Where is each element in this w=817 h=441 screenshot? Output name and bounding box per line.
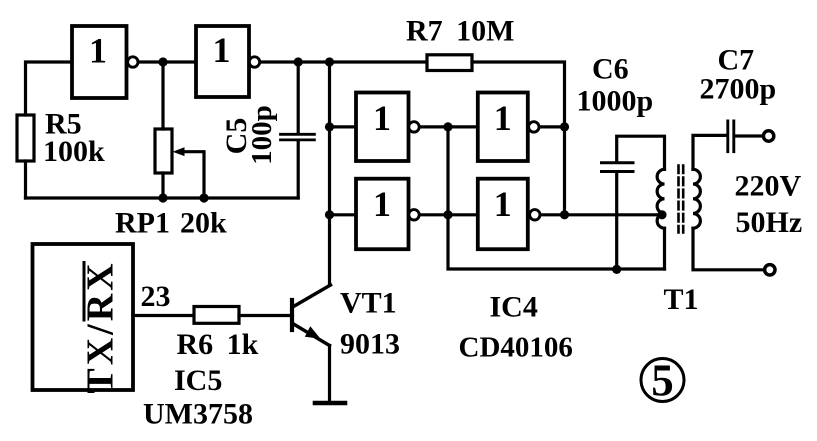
capacitor C5 top lead xyxy=(297,62,300,133)
inverter U2c output bubble xyxy=(409,210,419,220)
resistor R7 body xyxy=(427,55,472,71)
svg-text:1000p: 1000p xyxy=(577,85,654,118)
svg-text:1: 1 xyxy=(89,31,107,71)
wire: VT1 emitter to ground xyxy=(328,346,331,404)
svg-text:23: 23 xyxy=(141,280,171,313)
svg-text:1: 1 xyxy=(373,98,391,138)
svg-text:50Hz: 50Hz xyxy=(736,206,803,239)
svg-text:100k: 100k xyxy=(43,135,105,168)
inverter U2a output bubble xyxy=(409,122,419,132)
inverter U2d output bubble xyxy=(530,210,540,220)
transistor VT1 base bar xyxy=(290,300,294,330)
inverter U2d box xyxy=(478,179,528,250)
svg-text:1: 1 xyxy=(494,184,512,224)
svg-text:TX/RX: TX/RX xyxy=(79,260,121,393)
svg-text:C6: C6 xyxy=(592,53,629,86)
inverter U1b output bubble xyxy=(249,57,259,67)
wire: U2c out to U2d in xyxy=(420,213,478,216)
node: junction C5 top xyxy=(294,57,303,66)
node: junction right vertical row1 xyxy=(560,122,569,131)
inverter U1a box xyxy=(72,26,127,98)
svg-text:9013: 9013 xyxy=(340,328,400,361)
node: junction right vertical row2 xyxy=(560,210,569,219)
potentiometer RP1 body xyxy=(155,129,172,173)
ground xyxy=(315,401,345,406)
transistor VT1 collector diagonal xyxy=(294,285,331,307)
potentiometer RP1 bottom lead xyxy=(161,173,164,198)
node: junction C6 bottom xyxy=(612,265,621,274)
wire: bottom-left bus xyxy=(26,196,299,199)
inverter U2b box xyxy=(478,93,528,162)
wire: U1b output to R7 xyxy=(260,60,427,63)
wire: U1a output to U1b input xyxy=(138,60,196,63)
transistor VT1 emitter diagonal xyxy=(294,324,330,346)
node: junction transformer tap xyxy=(657,210,666,219)
inverter U2c box xyxy=(356,179,409,250)
svg-text:220V: 220V xyxy=(735,170,802,203)
figure number 5 circle xyxy=(641,359,684,402)
svg-text:CD40106: CD40106 xyxy=(459,332,573,364)
node: junction row2 left xyxy=(325,210,334,219)
inverter U2b output bubble xyxy=(529,122,539,132)
transformer T1 core xyxy=(679,166,684,233)
wire: R6 to VT1 base xyxy=(239,314,291,317)
node: junction main vertical top xyxy=(325,57,334,66)
capacitor C7 right lead xyxy=(735,134,761,137)
wire: R7 to right corner, down to row2 xyxy=(472,62,565,215)
svg-text:RP1 20k: RP1 20k xyxy=(115,207,227,240)
wire: mid vertical between gate columns xyxy=(448,127,665,269)
wire: IC5 pin 23 to R6 xyxy=(133,314,194,317)
wire: row2 into U2c xyxy=(330,213,357,216)
overline on RX xyxy=(83,263,86,321)
svg-text:1: 1 xyxy=(373,184,391,224)
svg-text:IC5: IC5 xyxy=(174,364,222,397)
potentiometer RP1 top lead xyxy=(161,62,164,129)
wire: row1 into U2a xyxy=(330,125,357,128)
inverter U1a output bubble xyxy=(128,57,138,67)
capacitor C6 plates xyxy=(602,163,634,172)
node: RP1 bottom junction xyxy=(158,193,167,202)
transistor VT1 emitter arrowhead xyxy=(305,326,321,339)
wire: U2b out to right vertical xyxy=(539,125,564,128)
wire: left input to gate U1a xyxy=(26,62,73,115)
svg-text:R7 10M: R7 10M xyxy=(406,15,515,48)
wire: RP1 wiper xyxy=(184,152,204,198)
node: junction row1 left xyxy=(325,122,334,131)
IC5 box xyxy=(33,244,134,390)
transformer T1 secondary top lead xyxy=(693,135,726,169)
node: junction at RP1 top xyxy=(158,57,167,66)
transformer T1 secondary winding xyxy=(693,169,700,228)
svg-text:1: 1 xyxy=(494,98,512,138)
svg-text:R6 1k: R6 1k xyxy=(177,328,259,361)
svg-text:IC4: IC4 xyxy=(490,291,538,324)
capacitor C7 plates xyxy=(728,121,734,152)
transformer T1 secondary bottom lead xyxy=(693,228,763,270)
svg-text:100p: 100p xyxy=(246,105,278,165)
capacitor C6 top lead xyxy=(617,136,665,169)
node: junction mid row2 xyxy=(443,210,452,219)
RP1 wiper arrowhead xyxy=(173,147,185,156)
capacitor C6 bottom lead xyxy=(615,173,618,270)
node: junction mid row1 xyxy=(443,122,452,131)
wire: R5 bottom lead xyxy=(24,161,27,198)
capacitor C5 plates xyxy=(281,134,315,140)
transformer T1 primary bottom lead xyxy=(663,228,666,269)
node: wiper return junction xyxy=(199,193,208,202)
resistor R6 body xyxy=(194,307,239,324)
svg-text:T1: T1 xyxy=(664,283,699,316)
terminal: output bottom xyxy=(765,265,775,275)
inverter U1b box xyxy=(196,26,249,97)
svg-text:VT1: VT1 xyxy=(340,287,397,320)
wire: row2 to transformer tap xyxy=(540,213,662,216)
resistor R5 body xyxy=(17,115,34,161)
svg-text:1: 1 xyxy=(213,30,231,70)
wire: U2a out to U2b in xyxy=(420,125,478,128)
transformer T1 primary winding xyxy=(657,169,664,228)
svg-text:2700p: 2700p xyxy=(700,73,777,106)
svg-text:5: 5 xyxy=(651,356,674,406)
terminal: output top xyxy=(763,131,773,141)
capacitor C5 bottom lead xyxy=(297,141,300,198)
wire: main left vertical (to VT1 collector) xyxy=(328,62,331,285)
inverter U2a box xyxy=(356,93,409,162)
svg-text:UM3758: UM3758 xyxy=(143,398,253,431)
